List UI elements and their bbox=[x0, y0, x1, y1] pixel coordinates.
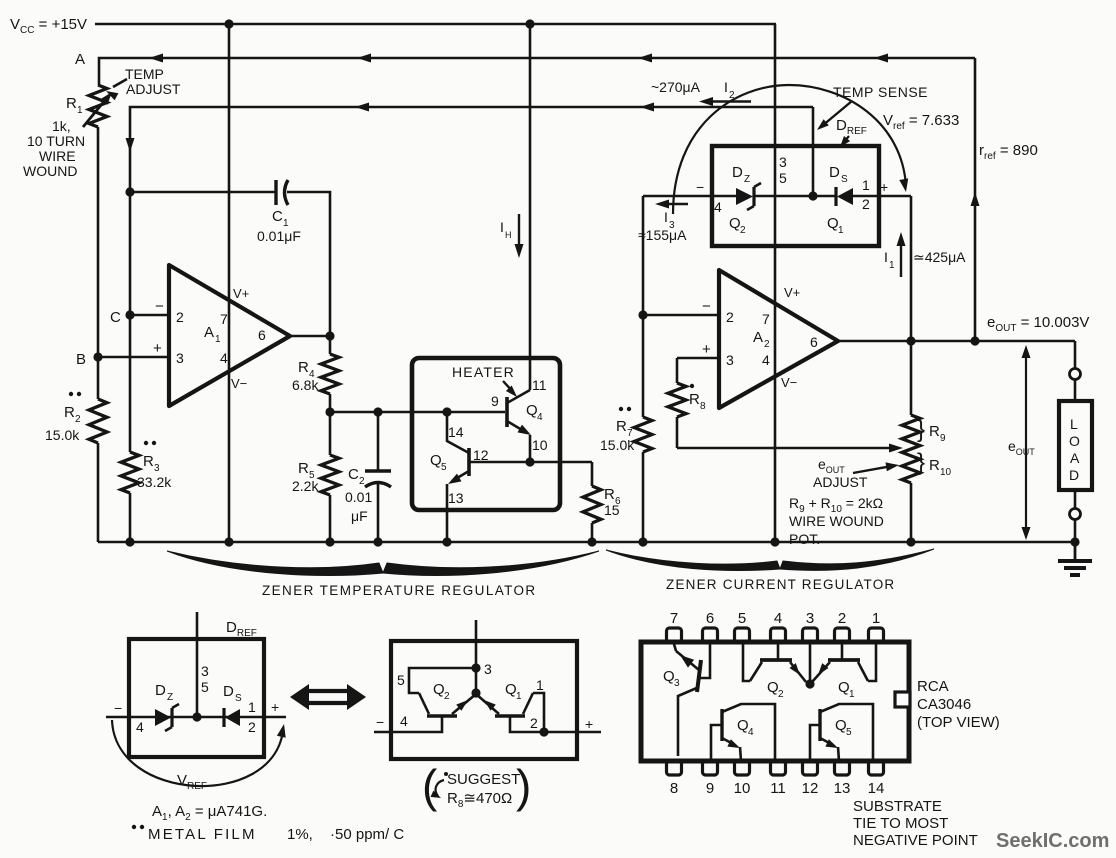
wire Vcc down to A2 V+ pin7 and V- pin4 to bus bbox=[774, 24, 777, 542]
ground bus bbox=[98, 541, 1075, 544]
node B bbox=[93, 352, 102, 361]
svg-text:~270μA: ~270μA bbox=[651, 79, 701, 95]
wire DREF detail horizontal bbox=[106, 716, 286, 719]
junction C2 bbox=[373, 407, 382, 416]
op-amp A1 body bbox=[169, 265, 290, 406]
svg-text:3: 3 bbox=[154, 463, 160, 474]
IC pin 12 bbox=[803, 761, 818, 775]
svg-text:2: 2 bbox=[726, 309, 734, 325]
svg-text:7: 7 bbox=[220, 311, 228, 327]
svg-text:2.2k: 2.2k bbox=[292, 478, 319, 494]
metal film note bbox=[132, 825, 136, 829]
svg-text:33.2k: 33.2k bbox=[137, 474, 172, 490]
svg-text:V+: V+ bbox=[784, 285, 800, 300]
heater block outline bbox=[412, 358, 560, 510]
arrow on temp-sense line bbox=[640, 103, 654, 112]
IC CA3046 body bbox=[641, 642, 909, 761]
transistor Q5 bbox=[467, 448, 471, 476]
svg-text:2: 2 bbox=[862, 196, 870, 212]
junction Q5 collector / Q4 base bbox=[442, 407, 451, 416]
Vref detail arc bbox=[112, 720, 283, 786]
svg-text:O: O bbox=[1069, 433, 1080, 449]
brace zener temperature regulator bbox=[167, 551, 383, 575]
svg-text:1: 1 bbox=[516, 691, 522, 702]
svg-text:2: 2 bbox=[764, 339, 770, 350]
svg-text:S: S bbox=[235, 693, 242, 704]
svg-text:Q: Q bbox=[737, 717, 749, 734]
wire C1 to A1 output bbox=[287, 192, 330, 336]
IC pin 3 bbox=[803, 628, 818, 642]
wire node B to A1 pin3 bbox=[98, 356, 169, 359]
brace zener current regulator bbox=[606, 550, 780, 571]
transistor Q3 in IC bbox=[697, 660, 701, 692]
svg-text:5: 5 bbox=[441, 462, 447, 473]
capacitor C1 bbox=[274, 180, 277, 205]
svg-text:10 TURN: 10 TURN bbox=[27, 133, 85, 149]
wire r_ref from A rail to output bbox=[974, 58, 977, 341]
current I1 label and arrow bbox=[900, 240, 902, 277]
svg-text:6: 6 bbox=[706, 610, 714, 627]
wire DREF minus terminal down to A2 pin2 and R7 bbox=[642, 196, 645, 417]
svg-text:Q: Q bbox=[729, 215, 741, 232]
svg-text:Z: Z bbox=[744, 174, 750, 185]
wire to capacitor C1 bbox=[130, 191, 276, 194]
svg-text:V+: V+ bbox=[233, 286, 249, 301]
svg-text:3: 3 bbox=[484, 661, 492, 677]
DREF detail block outline bbox=[129, 639, 264, 757]
svg-text:WOUND: WOUND bbox=[23, 163, 77, 179]
svg-text:B: B bbox=[76, 351, 86, 368]
svg-text:TEMP: TEMP bbox=[125, 66, 164, 82]
ground symbol bbox=[1074, 542, 1077, 560]
svg-text:METAL FILM: METAL FILM bbox=[148, 826, 257, 843]
center node pins 3/5 bbox=[808, 191, 817, 200]
resistor R3 bbox=[121, 452, 139, 493]
wire output to R9 bbox=[910, 341, 913, 415]
svg-text:9: 9 bbox=[491, 393, 499, 409]
wire inverting node down to C bbox=[129, 192, 132, 315]
wire pin3 top bbox=[475, 620, 478, 693]
svg-text:C: C bbox=[110, 309, 121, 326]
svg-text:3: 3 bbox=[201, 663, 209, 679]
current IH arrow bbox=[518, 214, 520, 250]
resistor R4 bbox=[329, 336, 332, 354]
svg-text:I: I bbox=[724, 79, 728, 95]
svg-text:2: 2 bbox=[248, 719, 256, 735]
IC pin 14 bbox=[869, 761, 884, 775]
svg-text:1: 1 bbox=[536, 677, 544, 693]
node pin 3 bbox=[471, 663, 480, 672]
svg-text:NEGATIVE POINT: NEGATIVE POINT bbox=[853, 832, 978, 849]
svg-text:Z: Z bbox=[167, 692, 173, 703]
svg-text:+: + bbox=[153, 340, 162, 357]
svg-text:V−: V− bbox=[231, 376, 247, 391]
junction C1 node bbox=[125, 187, 134, 196]
transistor Q4 in IC bbox=[720, 709, 723, 741]
IC pin 13 bbox=[835, 761, 850, 775]
IC pin 11 bbox=[771, 761, 786, 775]
svg-text:7: 7 bbox=[762, 311, 770, 327]
wire DREF plus terminal bbox=[879, 195, 911, 198]
svg-text:5: 5 bbox=[738, 610, 746, 627]
wire R3 to bus bbox=[129, 493, 132, 542]
svg-text:5: 5 bbox=[846, 727, 852, 738]
svg-text:1: 1 bbox=[872, 610, 880, 627]
junction Vcc / heater IH line bbox=[525, 19, 534, 28]
svg-text:TEMP SENSE: TEMP SENSE bbox=[833, 84, 928, 100]
svg-text:D: D bbox=[829, 164, 840, 181]
svg-text:13: 13 bbox=[834, 780, 851, 797]
svg-text:3: 3 bbox=[726, 352, 734, 368]
svg-text:4: 4 bbox=[748, 727, 754, 738]
wire load bottom bbox=[1074, 490, 1077, 508]
svg-text:4: 4 bbox=[220, 350, 228, 366]
svg-text:R: R bbox=[929, 457, 940, 474]
svg-text:14: 14 bbox=[868, 780, 885, 797]
current I3 label and arrow bbox=[662, 203, 688, 205]
svg-text:2: 2 bbox=[530, 715, 538, 731]
wire temp-sense line from DREF center to A1 network bbox=[130, 107, 813, 192]
svg-text:(TOP VIEW): (TOP VIEW) bbox=[917, 714, 1000, 731]
svg-text:A: A bbox=[204, 324, 214, 341]
svg-text:2: 2 bbox=[778, 689, 784, 700]
svg-text:8: 8 bbox=[670, 780, 678, 797]
svg-text:H: H bbox=[505, 230, 512, 240]
svg-text:+: + bbox=[271, 699, 279, 715]
svg-text:−: − bbox=[696, 179, 704, 195]
svg-text:Q: Q bbox=[838, 679, 850, 696]
svg-text:−: − bbox=[155, 298, 164, 315]
arrow on A rail bbox=[638, 54, 652, 63]
svg-text:10: 10 bbox=[940, 467, 952, 478]
wire plus terminal down to A2 output bbox=[910, 196, 913, 341]
svg-text:−: − bbox=[702, 298, 711, 315]
svg-text:C: C bbox=[348, 466, 359, 483]
transistor Q4 bbox=[505, 397, 509, 427]
center node DREF detail bbox=[192, 712, 201, 721]
svg-text:14: 14 bbox=[448, 424, 464, 440]
wire R4 node to Q4 base bbox=[330, 411, 505, 414]
wire R2 to bus bbox=[97, 443, 100, 542]
transistor Q2 in IC bbox=[760, 658, 792, 662]
wire DZ to center node bbox=[754, 195, 813, 198]
resistor R2 bbox=[89, 399, 107, 443]
svg-text:≈155μA: ≈155μA bbox=[638, 227, 687, 243]
junction bus bbox=[587, 537, 596, 546]
svg-text:I: I bbox=[500, 219, 504, 235]
svg-text:+: + bbox=[585, 716, 593, 732]
svg-text:1: 1 bbox=[889, 260, 895, 271]
wire node A rail bbox=[99, 58, 975, 85]
svg-text:1: 1 bbox=[838, 225, 844, 236]
svg-text:3: 3 bbox=[806, 610, 814, 627]
junction bus bbox=[373, 537, 382, 546]
svg-text:0.01μF: 0.01μF bbox=[257, 228, 301, 244]
svg-text:D: D bbox=[732, 164, 743, 181]
svg-text:R: R bbox=[929, 423, 940, 440]
svg-text:1: 1 bbox=[862, 177, 870, 193]
svg-text:15.0k: 15.0k bbox=[45, 427, 80, 443]
junction bus bbox=[325, 537, 334, 546]
junction output / pot bbox=[906, 336, 915, 345]
svg-text:−: − bbox=[114, 700, 122, 716]
svg-text:ADJUST: ADJUST bbox=[813, 474, 868, 490]
svg-text:2: 2 bbox=[359, 476, 365, 487]
svg-text:4: 4 bbox=[136, 719, 144, 735]
svg-text:TIE TO MOST: TIE TO MOST bbox=[853, 815, 948, 832]
svg-text:Q: Q bbox=[430, 452, 442, 469]
junction Q4 emitter / Q5 base line bbox=[525, 457, 534, 466]
svg-text:A: A bbox=[753, 329, 763, 346]
svg-text:R: R bbox=[604, 486, 615, 503]
arrow up on r_ref line bbox=[971, 192, 980, 206]
svg-text:R: R bbox=[616, 418, 627, 435]
svg-text:10: 10 bbox=[532, 437, 548, 453]
capacitor C2 bbox=[377, 412, 380, 471]
svg-text:4: 4 bbox=[400, 713, 408, 729]
arrow on temp-sense line bbox=[355, 103, 369, 112]
IC pin 9 bbox=[703, 761, 718, 775]
svg-text:8: 8 bbox=[700, 401, 706, 412]
svg-text:·50 ppm/ C: ·50 ppm/ C bbox=[330, 826, 404, 843]
svg-text:5: 5 bbox=[397, 672, 405, 688]
svg-text:9: 9 bbox=[940, 433, 946, 444]
wire R8 feedback to pot wiper bbox=[677, 447, 894, 450]
svg-text:V−: V− bbox=[781, 375, 797, 390]
svg-text:2: 2 bbox=[444, 691, 450, 702]
svg-text:5: 5 bbox=[201, 679, 209, 695]
node R4/R5/heater bbox=[325, 407, 334, 416]
junction bus bbox=[770, 537, 779, 546]
svg-text:}: } bbox=[917, 449, 925, 476]
svg-text:0.01: 0.01 bbox=[345, 489, 372, 505]
wire to A2 pin2 bbox=[643, 314, 719, 317]
svg-text:R: R bbox=[143, 453, 154, 470]
arrow on A rail bbox=[357, 54, 371, 63]
wire IH from Vcc to Q4 collector bbox=[529, 24, 532, 390]
svg-text:Q: Q bbox=[526, 402, 538, 419]
svg-text:6: 6 bbox=[258, 327, 266, 343]
svg-text:2: 2 bbox=[838, 610, 846, 627]
IC pin 7 bbox=[667, 628, 682, 642]
e_out measurement arrow bbox=[1025, 350, 1027, 535]
svg-text:R: R bbox=[298, 460, 309, 477]
svg-text:+: + bbox=[880, 179, 888, 195]
load terminal top bbox=[1070, 369, 1081, 380]
svg-text:HEATER: HEATER bbox=[452, 364, 515, 380]
junction load / bus bbox=[1070, 537, 1079, 546]
svg-text:6.8k: 6.8k bbox=[292, 377, 319, 393]
resistor R7 bbox=[634, 417, 652, 452]
wire A2 pin3 to R8 bbox=[677, 357, 719, 360]
junction bus bbox=[442, 537, 451, 546]
svg-text:Q: Q bbox=[835, 717, 847, 734]
svg-text:6: 6 bbox=[810, 334, 818, 350]
svg-text:2: 2 bbox=[176, 309, 184, 325]
arrow on A rail bbox=[149, 54, 163, 63]
svg-text:R: R bbox=[66, 95, 77, 112]
svg-text:≃425μA: ≃425μA bbox=[913, 249, 966, 265]
svg-text:−: − bbox=[376, 714, 384, 730]
resistor R6 bbox=[591, 462, 594, 486]
IC pin 1 bbox=[869, 628, 884, 642]
load terminal bottom bbox=[1070, 509, 1081, 520]
svg-text:1k,: 1k, bbox=[52, 118, 71, 134]
svg-text:Q: Q bbox=[505, 681, 517, 698]
junction Vcc / A1 supply bbox=[224, 19, 233, 28]
svg-text:D: D bbox=[223, 683, 234, 700]
wire node C to R3 bbox=[129, 315, 132, 452]
svg-text:RCA: RCA bbox=[917, 678, 949, 695]
svg-text:D: D bbox=[155, 682, 166, 699]
svg-text:SeekIC.com: SeekIC.com bbox=[996, 830, 1109, 852]
svg-text:Q: Q bbox=[663, 668, 675, 685]
equivalence double arrow bbox=[306, 691, 350, 703]
wire DREF detail top pin bbox=[196, 612, 199, 717]
junction bus bbox=[224, 537, 233, 546]
node pin2 junction bbox=[539, 727, 548, 736]
svg-text:A: A bbox=[75, 51, 85, 68]
svg-text:5: 5 bbox=[779, 170, 787, 186]
svg-text:L: L bbox=[1070, 416, 1078, 432]
svg-text:1: 1 bbox=[849, 689, 855, 700]
svg-text:3: 3 bbox=[176, 350, 184, 366]
svg-text:2: 2 bbox=[740, 225, 746, 236]
IC pin 5 bbox=[735, 628, 750, 642]
svg-text:Q: Q bbox=[767, 679, 779, 696]
Q1 base to pin2 wire bbox=[510, 716, 601, 732]
svg-text:S: S bbox=[841, 174, 848, 185]
svg-text:SUGGEST: SUGGEST bbox=[447, 771, 520, 788]
svg-text:1: 1 bbox=[215, 334, 221, 345]
svg-text:4: 4 bbox=[537, 412, 543, 423]
svg-text:12: 12 bbox=[473, 447, 489, 463]
wire node C to A1 pin2 bbox=[130, 314, 169, 317]
svg-text:1: 1 bbox=[77, 105, 83, 116]
wire R1 to node B to R2 bbox=[97, 127, 100, 399]
svg-text:R: R bbox=[64, 404, 75, 421]
resistor R5 bbox=[329, 412, 332, 455]
transistor Q5 in IC bbox=[818, 709, 821, 741]
svg-text:9: 9 bbox=[706, 780, 714, 797]
zener diode DZ detail bbox=[155, 709, 171, 726]
equivalent circuit box bbox=[391, 641, 577, 759]
resistor R8 bbox=[676, 358, 679, 383]
svg-text:2: 2 bbox=[75, 414, 81, 425]
DREF block outline bbox=[712, 146, 879, 246]
IC pin 10 bbox=[735, 761, 750, 775]
wire A1 output bbox=[290, 335, 330, 338]
wire A1 supply V+ pin7 / V- pin4 bbox=[228, 24, 231, 542]
svg-text:15.0k: 15.0k bbox=[600, 437, 635, 453]
node A1 output bbox=[325, 331, 334, 340]
svg-text:3: 3 bbox=[674, 678, 680, 689]
svg-text:4: 4 bbox=[762, 352, 770, 368]
temp sense drop from center node bbox=[812, 107, 815, 196]
junction bus bbox=[125, 537, 134, 546]
node emitters junction bbox=[471, 688, 480, 697]
wire pin5 loop bbox=[409, 668, 476, 693]
diode DS bbox=[834, 187, 837, 206]
potentiometer R1 bbox=[89, 85, 107, 127]
svg-text:7: 7 bbox=[670, 610, 678, 627]
svg-text:2: 2 bbox=[729, 90, 735, 101]
IC pin 6 bbox=[703, 628, 718, 642]
IC pin 2 bbox=[835, 628, 850, 642]
Vref measurement arc bbox=[673, 85, 906, 214]
svg-text:11: 11 bbox=[532, 377, 547, 393]
svg-text:μF: μF bbox=[351, 508, 368, 524]
svg-text:ADJUST: ADJUST bbox=[126, 81, 181, 97]
junction bus bbox=[638, 537, 647, 546]
wire output to load bbox=[1074, 341, 1077, 368]
wire A2 output bbox=[838, 340, 1075, 343]
svg-text:1%,: 1%, bbox=[287, 826, 313, 843]
node C bbox=[125, 310, 134, 319]
IC index notch bbox=[895, 692, 910, 707]
svg-text:3: 3 bbox=[779, 154, 787, 170]
svg-text:1: 1 bbox=[248, 699, 256, 715]
Q1 collector pin1 loop bbox=[533, 693, 544, 732]
zener diode DZ bbox=[736, 188, 753, 205]
svg-text:4: 4 bbox=[714, 199, 722, 215]
node A2 inverting input bbox=[638, 310, 647, 319]
wire inside block left bbox=[712, 195, 736, 198]
svg-text:I: I bbox=[884, 249, 888, 265]
IC pin 8 bbox=[667, 761, 682, 775]
svg-text:WIRE: WIRE bbox=[39, 148, 76, 164]
svg-text:}: } bbox=[917, 416, 925, 443]
potentiometer R9 R10 bbox=[902, 415, 920, 483]
svg-text:4: 4 bbox=[774, 610, 782, 627]
transistor Q2 equivalent bbox=[427, 714, 457, 717]
junction r_ref / output bbox=[970, 336, 979, 345]
transistor Q1 in IC bbox=[828, 658, 860, 662]
svg-text:C: C bbox=[272, 208, 283, 225]
svg-text:SUBSTRATE: SUBSTRATE bbox=[853, 798, 942, 815]
IC pin 4 bbox=[771, 628, 786, 642]
LOAD box bbox=[1059, 401, 1092, 490]
transistor Q1 equivalent bbox=[495, 714, 525, 717]
svg-text:10: 10 bbox=[734, 780, 751, 797]
svg-text:15: 15 bbox=[604, 502, 620, 518]
svg-text:A: A bbox=[1070, 450, 1080, 466]
svg-text:ZENER TEMPERATURE REGULATOR: ZENER TEMPERATURE REGULATOR bbox=[262, 583, 537, 598]
svg-text:R: R bbox=[298, 359, 309, 376]
svg-text:D: D bbox=[1069, 467, 1079, 483]
arrow down on left drop bbox=[126, 138, 135, 152]
svg-text:Q: Q bbox=[433, 681, 445, 698]
svg-text:13: 13 bbox=[448, 490, 464, 506]
svg-text:CA3046: CA3046 bbox=[917, 696, 971, 713]
svg-text:R: R bbox=[689, 391, 700, 408]
Q2 base to pin4 wire bbox=[374, 716, 442, 732]
wire IC pin3 to emitters bbox=[809, 644, 812, 684]
arrow on A rail bbox=[874, 54, 888, 63]
wire Vcc rail bbox=[95, 23, 776, 26]
svg-text:+: + bbox=[702, 341, 711, 358]
wire DREF left terminal bbox=[643, 195, 712, 198]
diode DS detail bbox=[222, 708, 225, 727]
op-amp A2 body bbox=[719, 270, 838, 408]
svg-text:Q: Q bbox=[827, 215, 839, 232]
svg-text:WIRE WOUND: WIRE WOUND bbox=[789, 513, 884, 529]
svg-text:ZENER CURRENT REGULATOR: ZENER CURRENT REGULATOR bbox=[666, 577, 895, 592]
svg-text:I: I bbox=[664, 209, 668, 225]
junction bus bbox=[906, 537, 915, 546]
svg-text:12: 12 bbox=[802, 780, 819, 797]
svg-text:POT.: POT. bbox=[789, 531, 820, 547]
